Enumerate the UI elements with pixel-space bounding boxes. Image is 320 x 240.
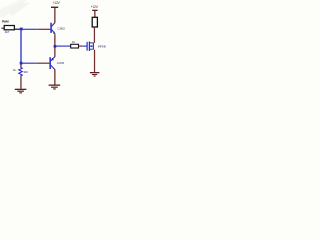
wire Q1 emitter pin down to node C bbox=[54, 34, 55, 46]
wire Q1 base pin (maroon) bbox=[38, 29, 51, 30]
wire junction B down to R2 (maroon) bbox=[20, 64, 21, 67]
base bar bbox=[50, 23, 52, 33]
wire Q2 base pin (maroon) bbox=[36, 63, 49, 64]
transistor M1 IRF540 (N-MOSFET) bbox=[87, 42, 94, 52]
svg-text:+12V: +12V bbox=[53, 1, 61, 5]
wire R4 to MOSFET drain (maroon) bbox=[94, 27, 95, 43]
ground left bbox=[15, 89, 27, 94]
faint watermark streak (decorative, matches scan artifact) bbox=[0, 0, 27, 17]
svg-text:10K: 10K bbox=[23, 70, 28, 74]
upper diagonal (emitter) bbox=[51, 57, 55, 61]
wire +12V to R2b (maroon) bbox=[94, 11, 95, 17]
wire vertical A to B (blue) bbox=[20, 29, 21, 64]
base bar bbox=[49, 57, 51, 69]
ground middle bbox=[49, 85, 61, 90]
wire to gate (blue) bbox=[82, 46, 86, 47]
wire R2 to ground (maroon) bbox=[20, 76, 21, 88]
channel bar bbox=[89, 42, 90, 52]
ground right bbox=[90, 72, 100, 77]
emitter arrow PNP on upper diagonal (points toward base) bbox=[51, 58, 54, 61]
wire Q2 collector pin down to ground bbox=[54, 70, 55, 85]
svg-text:PWM: PWM bbox=[2, 20, 9, 24]
body diode arrow bbox=[90, 45, 92, 47]
drain stub bbox=[90, 42, 93, 43]
collector diagonal bbox=[52, 23, 56, 27]
resistor R3 (gate series, box style) bbox=[71, 44, 79, 48]
power +12V left T-bar bbox=[51, 7, 58, 8]
wire R1 right lead (black) and wire to junction A (blue) bbox=[14, 29, 20, 30]
resistor R4 (drain, vertical box style) bbox=[92, 17, 97, 27]
node C junction dot bbox=[54, 45, 57, 48]
stub tie bar bbox=[93, 42, 94, 49]
svg-text:A1015: A1015 bbox=[57, 61, 65, 65]
transistor Q2 A1015 (PNP) bbox=[49, 57, 55, 70]
wire junction B to Q2 base (blue) bbox=[22, 63, 37, 64]
wire MOSFET source down to ground (maroon) bbox=[94, 50, 95, 72]
node B junction dot bbox=[20, 62, 23, 65]
svg-text:4k7: 4k7 bbox=[5, 30, 10, 34]
wire R3 right lead (maroon) bbox=[79, 46, 83, 47]
gate bar bbox=[87, 42, 88, 51]
wire node C down to Q2 emitter pin bbox=[54, 48, 55, 57]
svg-text:C1815: C1815 bbox=[57, 26, 65, 30]
body stub bbox=[90, 46, 93, 47]
wire pwm input lead bbox=[1, 28, 4, 29]
resistor R2 10K pulldown (zigzag) bbox=[19, 67, 23, 77]
emitter diagonal bbox=[52, 30, 56, 34]
wire node C to R3 (blue) bbox=[56, 46, 70, 47]
power +12V right T-bar bbox=[92, 10, 97, 11]
svg-text:IRF540: IRF540 bbox=[98, 44, 106, 48]
node A junction dot bbox=[20, 28, 23, 31]
svg-text:+12V: +12V bbox=[91, 5, 99, 9]
transistor Q1 C1815 (NPN) bbox=[50, 23, 55, 34]
background bbox=[0, 0, 121, 100]
source stub bbox=[90, 49, 93, 50]
emitter arrow NPN bbox=[53, 32, 56, 35]
lower diagonal (collector) bbox=[51, 65, 55, 69]
resistor R1 (series base resistor, box style) bbox=[4, 26, 14, 30]
wire Q1 collector pin to +12V bbox=[54, 8, 55, 23]
